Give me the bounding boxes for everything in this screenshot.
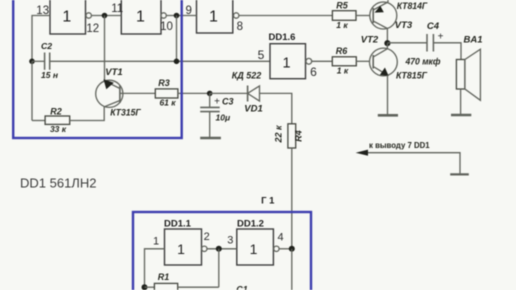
transistor VT2 circle [370, 48, 398, 76]
node junction dot pin4 [289, 246, 295, 252]
wire pin13 left and down [32, 16, 50, 62]
svg-text:10μ: 10μ [216, 113, 231, 123]
wire speaker to ground [460, 89, 462, 114]
transistor VT2 collector diagonal [373, 49, 387, 57]
wire VT1 base to R3 [120, 92, 155, 94]
inverter gate DD1.4 box [121, 0, 161, 34]
svg-text:1: 1 [209, 9, 218, 26]
svg-text:5: 5 [258, 48, 265, 62]
svg-text:C4: C4 [427, 21, 440, 32]
wire node to C4 [387, 42, 427, 44]
wire R3 right to C3 node [178, 92, 210, 94]
svg-text:КТ315Г: КТ315Г [110, 108, 142, 119]
svg-text:VD1: VD1 [244, 103, 262, 114]
transistor VT3 collector wire down [386, 29, 388, 44]
svg-text:DD1.2: DD1.2 [237, 219, 264, 230]
wire DD1.1 output to DD1.2 [208, 248, 237, 250]
wire R1 right to C1 [178, 286, 219, 288]
svg-text:12: 12 [86, 23, 99, 35]
svg-text:R3: R3 [158, 78, 170, 88]
node junction dot C3 [207, 91, 213, 97]
svg-text:3: 3 [227, 235, 233, 247]
node junction dot C2 left [29, 59, 35, 65]
node junction dot R1 left [142, 284, 148, 290]
svg-text:1: 1 [177, 241, 185, 257]
transistor VT1 arrow [104, 79, 114, 89]
wire R5 to VT3 base [356, 15, 370, 17]
node dot VT2 VT3 collectors [384, 40, 390, 46]
svg-text:R2: R2 [50, 106, 62, 116]
speaker BA1 cone [465, 49, 481, 100]
inverter gate DD1.3 box [50, 0, 86, 34]
wire gate3 output to R5 [239, 15, 333, 17]
node junction dot after gate2 output [174, 13, 180, 19]
wire C3 node to diode [210, 92, 248, 94]
svg-text:1: 1 [62, 9, 71, 26]
resistor R4 box [288, 124, 296, 148]
ground bar BA1 [451, 114, 471, 117]
capacitor C3 lead [209, 93, 211, 107]
transistor VT2 base bar [372, 55, 374, 69]
svg-text:к выводу 7 DD1: к выводу 7 DD1 [369, 140, 430, 150]
inverter DD1.1 box [165, 229, 202, 265]
wire C2 right to DD1.6 pin5 [50, 60, 270, 62]
svg-text:1: 1 [283, 56, 291, 72]
svg-text:Г 1: Г 1 [261, 195, 275, 206]
transistor VT2 arrow [380, 68, 389, 77]
diode VD1 triangle [248, 86, 260, 101]
svg-text:15 н: 15 н [41, 70, 58, 80]
svg-text:11: 11 [111, 3, 123, 15]
resistor R5 box [332, 11, 356, 21]
svg-text:1: 1 [153, 236, 159, 248]
transistor VT3 collector diagonal [373, 21, 387, 29]
wire gate1 output to gate2 input [91, 15, 121, 17]
transistor VT3 circle [370, 2, 397, 29]
wire R2 right to VT1 emitter [70, 107, 105, 121]
svg-text:DD1.1: DD1.1 [164, 219, 192, 230]
svg-text:1: 1 [136, 9, 145, 26]
svg-text:33 к: 33 к [50, 124, 67, 134]
svg-text:R5: R5 [336, 1, 348, 11]
svg-text:1 к: 1 к [336, 20, 348, 30]
wire diode to R4 [260, 93, 292, 123]
blue box bottom generator [133, 212, 311, 290]
svg-text:10: 10 [160, 21, 173, 33]
transistor VT3 emitter wire up [387, 0, 389, 2]
speaker BA1 rectangle [456, 60, 465, 90]
resistor R2 box [45, 116, 70, 124]
wire R6 to VT2 base [356, 60, 369, 62]
svg-text:BA1: BA1 [463, 35, 482, 46]
capacitor C3 plates [200, 106, 220, 108]
svg-text:+: + [438, 32, 444, 43]
svg-text:61 к: 61 к [159, 98, 176, 108]
wire down from pin2 node to C1 [218, 249, 220, 287]
resistor R3 box [155, 89, 178, 98]
svg-text:8: 8 [237, 21, 243, 33]
wire gate2 output to gate3 input [166, 15, 196, 17]
svg-text:22 к: 22 к [274, 125, 284, 144]
wire C2 left stub [32, 60, 45, 62]
wire VT2 emitter to ground [387, 75, 389, 115]
svg-text:+: + [214, 97, 220, 108]
node junction dot on C2 line [174, 59, 180, 65]
inverter DD1.2 box [237, 229, 274, 265]
svg-text:C3: C3 [222, 96, 234, 106]
arrowhead left [356, 150, 368, 156]
capacitor C4 plates [426, 34, 428, 52]
svg-text:КД 522: КД 522 [232, 70, 262, 80]
svg-text:VT3: VT3 [395, 20, 413, 31]
ground bar C3 [200, 137, 221, 140]
blue box top generator [13, 0, 182, 138]
svg-text:1 к: 1 к [337, 66, 349, 76]
inverter gate DD1.5 box [197, 0, 233, 33]
svg-text:VT1: VT1 [105, 67, 122, 78]
resistor R6 box [332, 57, 356, 66]
svg-text:R1: R1 [158, 272, 170, 282]
svg-text:470 мкф: 470 мкф [405, 57, 441, 68]
wire down from C2 node to R2 [31, 61, 33, 120]
inverter DD1.1 output bubble [202, 246, 207, 251]
diode VD1 cathode bar [247, 86, 249, 102]
transistor VT3 emitter diagonal [373, 2, 388, 10]
inverter DD1.2 output bubble [274, 246, 279, 251]
transistor VT1 base bar [119, 85, 121, 103]
transistor VT2 emitter diagonal [373, 67, 386, 75]
svg-text:4: 4 [277, 232, 283, 244]
wire node down to VT1 collector [104, 16, 106, 82]
wire node down to C2 line [176, 16, 178, 62]
transistor VT1 collector diagonal [105, 81, 120, 89]
capacitor C2 plates [44, 53, 46, 70]
wire DD1.1 input [145, 249, 165, 287]
inverter DD1.6 output bubble [306, 58, 312, 64]
resistor R1 box [154, 283, 177, 290]
ground bar pin7 [450, 173, 469, 175]
svg-text:R4: R4 [294, 130, 304, 142]
svg-text:2: 2 [204, 231, 210, 243]
transistor VT3 arrow [375, 6, 384, 13]
transistor VT1 circle [96, 80, 123, 107]
svg-text:DD1 561ЛН2: DD1 561ЛН2 [20, 176, 96, 191]
node junction dot pin2 [216, 246, 222, 252]
inverter DD1.6 box [270, 44, 306, 79]
svg-text:1: 1 [250, 241, 258, 257]
inverter gate DD1.5 output bubble [234, 13, 239, 18]
transistor VT1 emitter diagonal [104, 101, 120, 107]
ground bar VT2 [378, 114, 398, 117]
wire to R2 left [32, 120, 45, 122]
svg-text:C2: C2 [41, 41, 52, 51]
capacitor C3 lead to ground [209, 112, 211, 138]
svg-text:6: 6 [310, 65, 317, 79]
svg-text:DD1.6: DD1.6 [269, 32, 296, 43]
svg-text:КТ814Г: КТ814Г [397, 1, 429, 12]
svg-text:КТ815Г: КТ815Г [396, 70, 428, 81]
wire DD1.6 output to R6 [312, 60, 333, 62]
wire DD1.2 output to node [279, 248, 292, 250]
wire C4 to speaker [433, 43, 461, 60]
svg-text:VT2: VT2 [361, 35, 379, 46]
transistor VT2 collector wire up [386, 43, 388, 49]
transistor VT3 base bar [372, 8, 374, 23]
inverter gate DD1.3 output bubble [86, 13, 91, 18]
svg-text:R6: R6 [336, 46, 348, 56]
wire R4 down to DD1.2 output node [291, 148, 293, 249]
inverter gate DD1.4 output bubble [161, 13, 166, 18]
node junction dot at pin11 wire [102, 13, 108, 19]
wire R1 left [145, 286, 155, 288]
wire node down [291, 249, 293, 290]
svg-text:С1: С1 [236, 285, 248, 290]
wire to pin 7 with arrow [368, 153, 461, 174]
